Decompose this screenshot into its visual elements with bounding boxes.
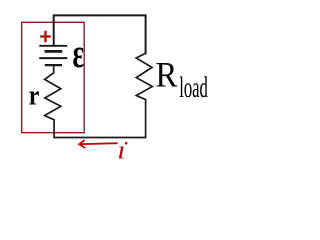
svg-text:R: R <box>156 55 178 95</box>
svg-text:r: r <box>29 80 40 111</box>
svg-text:ε: ε <box>73 30 85 76</box>
svg-text:ı: ı <box>117 136 125 165</box>
svg-text:load: load <box>179 72 208 104</box>
